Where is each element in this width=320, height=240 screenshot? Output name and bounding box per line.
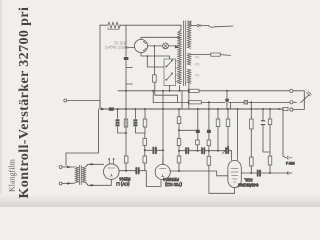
resistor R8 (col D upper) [143,119,147,127]
label tube V4 [237,178,259,188]
tube V4 (output pentode) [228,161,241,188]
left page-edge shading [0,0,4,207]
resistor R2 (grid leak above V1 plate wire) [124,156,128,163]
wire secondary bottom drop [188,83,190,109]
switch S1 tap stubs to primary [176,61,178,82]
transformer T1 secondary winding upper [187,21,191,48]
capacitor C6 (block) [133,119,137,127]
node bus junctions [117,108,119,110]
transformer T2 input primary [75,167,78,183]
resistor R14 [207,140,211,146]
resistor R4 (on tap) [211,53,220,56]
wire top horizontal [100,24,181,26]
resistor R10 (col D lower) [143,156,147,163]
wire terminal to V1 column [67,101,100,110]
connector output 3 [290,108,293,111]
node plate-Rg junction [125,170,127,172]
column C x135.4: bus to elbow [135,109,144,133]
svg-text:Klangfilm: Klangfilm [8,158,17,192]
wire V3 plate to V4 [170,171,227,176]
tube V3 (second a.f.) [155,164,170,179]
wire secondary middle tap [191,54,211,56]
resistor R6 (on bus right end) [283,107,288,110]
capacitor C10 (series to output grid) [226,148,228,153]
column F x197.8 [196,109,198,151]
node V2-bus junction [125,108,127,110]
resistor R15 [207,156,211,165]
switch S1 arrow 2 [167,73,173,80]
wire monitor jack loop [297,91,305,110]
capacitor C13 (series on V2 plate) [136,168,138,173]
connector output 2 [290,101,293,104]
svg-text:REN904: REN904 [163,177,179,182]
wire V1 grid lead [126,47,134,49]
resistor R13 [196,140,200,145]
svg-text:F-Bld: F-Bld [286,162,295,166]
variable arrow on grid chain [223,147,229,154]
switch S1 arrow 1 [167,60,173,66]
column A x117.6: bus to elbow [118,109,126,133]
capacitor C5 (block) [115,119,119,127]
resistor R16 [216,119,220,127]
node V1 grid junction [125,47,127,49]
terminal mid-left [64,99,67,102]
capacitor C3 (series on middle rail) [244,101,248,104]
wire V4 screen feed [236,109,238,157]
wire V4 plate to output [241,172,289,174]
wire switch bottom drop [169,86,171,91]
tube V4 electrodes [231,169,238,183]
capacitor C2 (series on middle rail) [225,99,229,102]
jack plug P1 [301,95,309,102]
rail upper (y90.8) [118,90,290,92]
resistor R12 (col E lower) [177,156,181,163]
wire V3 grid column x163 [162,91,164,165]
node coupling junctions [196,150,198,152]
wire secondary top to V2 grid with arrow [86,164,104,167]
column D x145: bus down [144,109,146,171]
tube V2 (first a.f. bottom) [104,164,120,180]
tube V3 top pin [162,157,164,164]
tube V1 electrodes [143,41,146,50]
svg-text:Gr: Gr [194,73,199,78]
resistor R1 (zigzag) [108,22,121,28]
resistor R19 [250,157,254,166]
capacitor C12 (small block) [207,130,211,133]
node col D coupling [144,149,146,151]
transformer T1 primary winding [178,31,182,84]
main bus (y109) [101,108,283,110]
resistor R20 [268,119,272,125]
node colA-V2 join [125,132,127,134]
coupling wire stage2 y150.7 [179,151,232,158]
transformer T2 core [79,165,81,184]
wire secondary bottom to V2 cathode with arrow [86,180,112,186]
wire lamp column down [153,46,155,75]
wire V4 cathode return [209,188,235,194]
svg-text:l05 32: l05 32 [113,40,125,45]
connector F2 [287,171,292,174]
column E x179 (V3 plate load) [178,109,180,171]
capacitor C14 (series output) [258,170,260,175]
terminal input 2 [59,182,62,185]
wire screen feed to input stage [66,109,99,166]
switch S1 attenuator box [164,59,176,86]
wire grid dropper V2 [125,25,127,156]
tube V2 electrodes [108,168,115,176]
resistor R18 [250,119,254,129]
connector F1 [287,156,292,159]
wire lamp left [148,45,163,47]
transformer T2 secondary [82,167,85,183]
resistor R22 (col E upper) [177,117,181,124]
tube V1 (first a.f. triode, top) [134,39,147,52]
label tube V2 [116,177,130,187]
switch S2 blade wave [209,26,215,28]
capacitor C15 (series small) [261,120,265,124]
capacitor C1 (series block on V2) [124,57,129,60]
column L x270 [269,109,271,173]
column G x208.9 [208,102,210,193]
arrow bus feed [101,108,106,111]
tube V3 electrodes [160,169,166,177]
rail middle (y102.3) [153,101,290,103]
resistor R9 (col D mid) [143,138,147,145]
wire rail1-rail2 link x153.2 [152,91,154,103]
transformer T1 core [183,21,185,86]
resistor R11 (col E mid) [177,138,181,145]
transformer T1 secondary winding lower [187,69,191,83]
svg-text:REN4: REN4 [119,177,131,182]
capacitor C7 (series coupling to V3 grid) [153,148,156,154]
column K x263 [263,109,270,152]
terminal input 1 [59,166,62,169]
wire lamp right with arrow to transformer [168,46,179,48]
switch S1 contact dots [165,66,167,68]
wire secondary top tap [191,21,233,27]
arrow into primary [175,45,179,49]
node rail junctions [152,90,154,92]
node output wire junctions [269,172,271,174]
wire V1 plate top lead [141,37,180,39]
node plate junction col E [178,170,180,172]
wire primary bottom drop [180,86,182,110]
node secondary-rail junction [188,90,190,92]
resistor R21 [268,156,272,165]
wire lamp-column elbow to rail2 [155,82,178,102]
wire switch left stub [147,56,164,67]
capacitor C9 (series) [202,148,204,153]
switch S2 contacts on tap [197,24,199,26]
tube V2 top pins [109,160,113,164]
connector output 1 [290,89,293,92]
wire into primary top with arrow [180,25,181,31]
svg-text:KGL: KGL [243,178,252,183]
wire input 1 with arrow [62,166,74,168]
wire V1 cathode lead down [141,53,170,59]
wire top-left vertical [99,25,101,109]
svg-text:Gr: Gr [194,55,199,60]
node V2-rail junction [125,90,127,92]
node J bottom [250,172,252,174]
wire V2 plate [119,171,161,187]
node lamp column junction [154,45,156,47]
svg-text:Kontroll-Verstärker 32700 pri: Kontroll-Verstärker 32700 pri [17,7,32,199]
lamp La1 [163,43,169,49]
transformer T1 secondary winding middle [187,53,191,65]
column H x218 [217,109,219,151]
node col E mid [178,129,180,131]
svg-text:Gr: Gr [194,62,199,67]
node col E coupling [178,150,180,152]
resistor R3 (lamp column) [153,75,157,82]
column J x251.3 [250,102,252,173]
resistor R1 bracket [108,28,119,30]
bottom page-edge shading [0,194,320,207]
resistor R23 (on upper rail) [188,89,199,92]
column M x283 to F terminal [283,110,286,158]
wire link rail2-bus x230.6 [230,102,232,109]
node cathode tee [146,55,148,57]
tube V4 top pins [232,157,238,161]
grid coupling wire y150.3 [145,149,163,151]
label tube V3 [163,177,182,187]
wire col E to col F link [179,129,197,131]
label tube V1 (rotated scan text) [105,40,129,50]
column I x228 [227,109,229,148]
capacitor C11 (small block) [196,130,200,133]
resistor R5 (on middle rail) [188,101,201,104]
resistor R7 (col B x126) [124,119,128,127]
wire input 2 with arrow [62,182,74,184]
wire inter-rail link x227 [226,91,228,109]
capacitor C8 (series) [186,148,188,153]
node V3 grid junction [162,149,164,151]
resistor R17 [226,119,230,127]
wire stubs on V2 column [126,68,133,85]
capacitor C4 (series on bus) [109,107,114,110]
